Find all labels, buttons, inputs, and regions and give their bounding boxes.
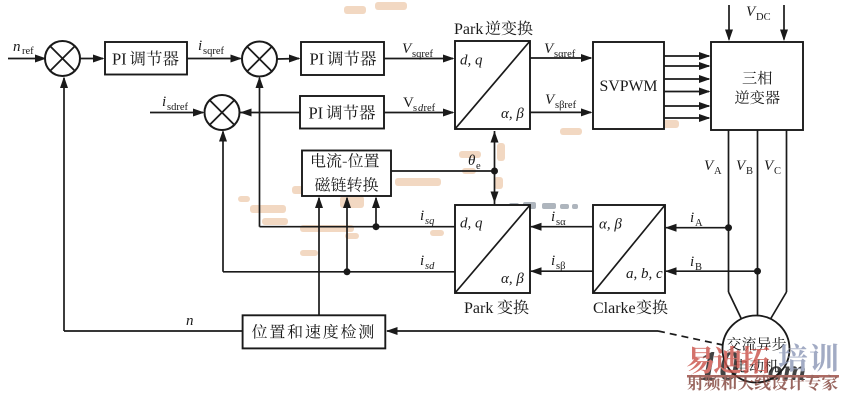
block: Clarke transform bbox=[593, 205, 665, 293]
label i_sa bbox=[551, 209, 566, 228]
svg-text:PI: PI bbox=[309, 104, 324, 123]
label V_sqref bbox=[402, 41, 433, 60]
label V_saref bbox=[544, 41, 576, 60]
wires: SVPWM gate signals to inverter (6) bbox=[664, 52, 711, 122]
wire: i_sq feedback (Park to S2) bbox=[256, 77, 456, 227]
wire: phase C output bbox=[771, 130, 787, 319]
svg-text:ref: ref bbox=[424, 103, 436, 114]
block: current-position flux linkage converter bbox=[302, 151, 391, 197]
svg-text:Park: Park bbox=[464, 300, 493, 317]
label i_sqref bbox=[198, 38, 224, 57]
svg-text:A: A bbox=[714, 166, 722, 177]
wire: phase B output bbox=[757, 130, 759, 316]
svg-text:i: i bbox=[420, 253, 424, 269]
summing junction S1 bbox=[45, 41, 80, 76]
svg-text:sq: sq bbox=[425, 216, 434, 227]
label V_sbref bbox=[545, 92, 577, 111]
wire: S2 to PI regulator U2 bbox=[277, 55, 301, 63]
svg-text:i: i bbox=[551, 209, 555, 225]
summing junction S2 bbox=[242, 42, 277, 77]
svg-text:i: i bbox=[198, 38, 202, 54]
label i_A bbox=[690, 210, 703, 229]
svg-text:Park: Park bbox=[454, 21, 483, 38]
block: PI regulator U2 (q-axis current) bbox=[301, 42, 384, 75]
wire: n feedback to S1 bbox=[60, 77, 243, 332]
node: i_sd junction bbox=[344, 268, 351, 275]
wire: theta_e to Park (down) bbox=[491, 192, 499, 204]
svg-text:i: i bbox=[690, 210, 694, 226]
svg-text:sα: sα bbox=[556, 217, 566, 228]
summing junction S3 bbox=[205, 95, 240, 130]
svg-text:B: B bbox=[746, 166, 753, 177]
svg-text:sβref: sβref bbox=[555, 100, 577, 111]
block: Park transform bbox=[455, 205, 530, 293]
svg-text:C: C bbox=[774, 166, 781, 177]
svg-text:θ: θ bbox=[468, 153, 476, 169]
wire: i_sa Clarke to Park bbox=[530, 223, 593, 231]
wire: theta_e to inverse Park (up) bbox=[491, 131, 499, 205]
block: PI regulator U3 (d-axis current) bbox=[300, 96, 384, 129]
label V_sdref bbox=[403, 95, 436, 114]
wire: i_sdref input to S3 bbox=[150, 109, 205, 117]
svg-text:sqref: sqref bbox=[412, 49, 433, 60]
label i_sd bbox=[420, 253, 435, 272]
label V_B bbox=[736, 158, 753, 177]
label V_DC bbox=[746, 4, 771, 23]
label i_B bbox=[690, 254, 702, 273]
svg-text:sdref: sdref bbox=[167, 102, 188, 113]
block: position and speed detection bbox=[243, 315, 386, 348]
svg-text:sqref: sqref bbox=[203, 46, 224, 57]
label n bbox=[186, 313, 194, 329]
label V_A bbox=[704, 158, 722, 177]
svg-text:B: B bbox=[695, 262, 702, 273]
wire: V_sbref to SVPWM bbox=[530, 108, 593, 116]
svg-text:sd: sd bbox=[425, 261, 435, 272]
watermark: EDATop logo bbox=[687, 343, 839, 390]
wire: i_sd feedback (Park to S3) bbox=[219, 130, 455, 272]
label V_C bbox=[764, 158, 781, 177]
svg-text:e: e bbox=[476, 161, 481, 172]
svg-text:PI: PI bbox=[310, 50, 325, 69]
svg-text:a, b, c: a, b, c bbox=[626, 266, 663, 282]
label n_ref bbox=[13, 39, 34, 57]
wire: motor to detection block bbox=[386, 327, 658, 335]
label i_sq bbox=[420, 208, 434, 227]
wire: i_sq to flux block riser bbox=[372, 197, 380, 227]
svg-text:n: n bbox=[13, 39, 21, 55]
svg-text:A: A bbox=[695, 218, 703, 229]
wire: V_sqref to inverse Park bbox=[384, 55, 455, 63]
wire: i_sd to flux block riser bbox=[343, 197, 351, 272]
wire: S1 to PI speed regulator bbox=[80, 55, 105, 63]
svg-text:i: i bbox=[690, 254, 694, 270]
node: i_sq junction bbox=[373, 223, 380, 230]
wire: dashed link from motor bbox=[658, 331, 723, 345]
wire: i_sqref to S2 bbox=[187, 55, 242, 63]
label: Park inverse title bbox=[454, 20, 533, 38]
block: three-phase inverter bbox=[711, 42, 803, 130]
svg-text:sαref: sαref bbox=[554, 49, 576, 60]
node: theta_e junction bbox=[491, 168, 498, 175]
svg-text:α, β: α, β bbox=[599, 217, 622, 233]
wire: V_saref to SVPWM bbox=[530, 54, 593, 62]
wire: V_DC supply arrows bbox=[725, 5, 788, 41]
wire: i_sb Clarke to Park bbox=[530, 267, 593, 275]
svg-text:d, q: d, q bbox=[460, 216, 483, 232]
block: inverse Park transform bbox=[455, 41, 530, 129]
wire: phase A output bbox=[729, 130, 742, 319]
svg-text:s: s bbox=[413, 103, 417, 114]
label theta_e bbox=[468, 153, 481, 172]
motor: AC asynchronous machine bbox=[723, 316, 790, 383]
wire: i_B current to Clarke bbox=[665, 267, 761, 275]
block: PI regulator U1 (speed) bbox=[105, 42, 187, 75]
block: SVPWM bbox=[593, 42, 664, 129]
svg-text:n: n bbox=[186, 313, 194, 329]
label: Park transform title bbox=[464, 299, 529, 317]
wire: speed to flux block riser bbox=[315, 197, 323, 316]
label i_sdref bbox=[162, 94, 188, 113]
wire: flux block to theta_e node bbox=[391, 170, 495, 172]
background artifact smudges (decorative) bbox=[238, 2, 679, 256]
svg-text:i: i bbox=[162, 94, 166, 110]
svg-text:α, β: α, β bbox=[501, 271, 524, 287]
svg-text:i: i bbox=[420, 208, 424, 224]
wire: n_ref input bbox=[8, 55, 47, 63]
svg-text:d, q: d, q bbox=[460, 53, 483, 69]
svg-text:sβ: sβ bbox=[556, 261, 565, 272]
svg-text:PI: PI bbox=[112, 50, 127, 69]
svg-text:α, β: α, β bbox=[501, 106, 524, 122]
label: Clarke transform title bbox=[593, 299, 668, 317]
svg-text:ref: ref bbox=[22, 46, 34, 57]
svg-text:SVPWM: SVPWM bbox=[600, 78, 658, 95]
wire: PI U3 output to S3 bbox=[240, 109, 300, 117]
svg-text:Clarke: Clarke bbox=[593, 300, 636, 317]
svg-text:i: i bbox=[551, 253, 555, 269]
label i_sb bbox=[551, 253, 565, 272]
wire: i_A current to Clarke bbox=[665, 224, 732, 232]
svg-text:DC: DC bbox=[756, 12, 771, 23]
wire: V_sdref to inverse Park bbox=[384, 109, 455, 117]
